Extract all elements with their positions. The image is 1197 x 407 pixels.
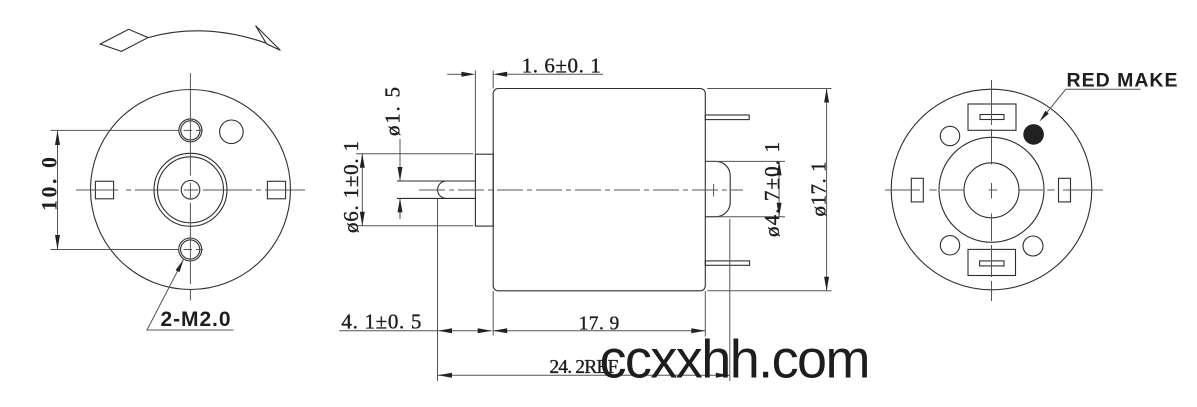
svg-text:10. 0: 10. 0 xyxy=(37,157,62,211)
svg-text:ø4. 7±0. 1: ø4. 7±0. 1 xyxy=(760,142,784,237)
svg-text:ø17. 1: ø17. 1 xyxy=(807,162,831,217)
svg-text:RED MAKE: RED MAKE xyxy=(1067,70,1178,92)
svg-text:1. 6±0. 1: 1. 6±0. 1 xyxy=(522,53,601,77)
svg-text:ø6. 1±0. 1: ø6. 1±0. 1 xyxy=(339,141,363,233)
svg-text:ø1. 5: ø1. 5 xyxy=(381,87,405,136)
svg-text:2-M2.0: 2-M2.0 xyxy=(161,308,231,331)
svg-text:ccxxhh.com: ccxxhh.com xyxy=(600,330,871,390)
svg-text:4. 1±0. 5: 4. 1±0. 5 xyxy=(341,310,421,334)
